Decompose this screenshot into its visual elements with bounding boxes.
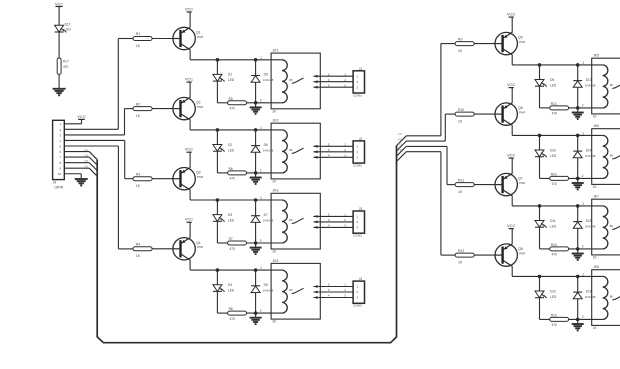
svg-text:R11: R11	[458, 178, 464, 182]
svg-text:1: 1	[260, 266, 262, 270]
svg-text:D9: D9	[550, 78, 554, 82]
svg-text:VCC: VCC	[185, 217, 194, 222]
svg-text:R14: R14	[551, 173, 557, 177]
svg-text:IN7: IN7	[398, 144, 402, 147]
svg-text:D2: D2	[228, 143, 232, 147]
svg-text:8K: 8K	[610, 224, 614, 228]
svg-text:J3: J3	[359, 207, 363, 211]
svg-text:D10: D10	[550, 148, 556, 152]
svg-text:LED: LED	[550, 83, 557, 87]
svg-text:470: 470	[230, 317, 236, 321]
svg-text:R9: R9	[458, 37, 462, 41]
svg-text:VCC: VCC	[55, 1, 64, 6]
svg-text:1: 1	[582, 61, 584, 65]
svg-text:JK6: JK6	[593, 124, 599, 128]
svg-text:470: 470	[230, 247, 236, 251]
svg-text:R4: R4	[136, 243, 140, 247]
svg-text:8K: 8K	[289, 218, 293, 222]
svg-text:470: 470	[552, 112, 558, 116]
svg-text:JK5: JK5	[593, 54, 599, 58]
svg-text:CON3: CON3	[353, 164, 362, 168]
svg-text:JK8: JK8	[593, 265, 599, 269]
svg-text:JK4: JK4	[273, 259, 279, 263]
svg-text:R12: R12	[458, 249, 464, 253]
svg-text:JK1: JK1	[273, 49, 279, 53]
svg-text:PNP: PNP	[519, 110, 525, 114]
svg-text:1K: 1K	[458, 120, 463, 124]
svg-text:PNP: PNP	[197, 105, 203, 109]
svg-text:2: 2	[582, 245, 584, 249]
svg-text:LED: LED	[65, 28, 72, 32]
svg-text:R3: R3	[136, 172, 140, 176]
svg-text:470: 470	[552, 323, 558, 327]
svg-text:J4: J4	[359, 277, 363, 281]
svg-text:R8: R8	[229, 307, 233, 311]
svg-text:R1: R1	[136, 32, 140, 36]
svg-text:1K: 1K	[136, 254, 141, 258]
svg-text:J9: J9	[53, 181, 57, 185]
svg-text:D5: D5	[264, 73, 268, 77]
svg-text:D4: D4	[228, 283, 232, 287]
svg-text:VCC: VCC	[185, 6, 194, 11]
svg-text:R6: R6	[229, 167, 233, 171]
svg-text:D13: D13	[586, 78, 592, 82]
svg-text:VCC: VCC	[507, 82, 516, 87]
svg-text:D16: D16	[586, 289, 592, 293]
svg-text:10PIN: 10PIN	[54, 186, 64, 190]
svg-text:8K: 8K	[289, 148, 293, 152]
svg-text:CON3: CON3	[353, 304, 362, 308]
svg-text:PNP: PNP	[197, 35, 203, 39]
svg-text:PNP: PNP	[519, 40, 525, 44]
svg-text:J2: J2	[359, 137, 363, 141]
svg-text:JK7: JK7	[593, 195, 599, 199]
svg-text:1K: 1K	[458, 49, 463, 53]
svg-text:470: 470	[230, 107, 236, 111]
svg-text:1K: 1K	[136, 44, 141, 48]
svg-text:JK3: JK3	[273, 189, 279, 193]
svg-text:1N4148: 1N4148	[263, 78, 274, 82]
svg-text:470: 470	[230, 177, 236, 181]
svg-text:VCC: VCC	[507, 153, 516, 158]
svg-text:1: 1	[260, 196, 262, 200]
svg-text:VCC: VCC	[507, 223, 516, 228]
svg-text:2: 2	[582, 174, 584, 178]
svg-text:D11: D11	[550, 219, 556, 223]
svg-text:R5: R5	[229, 97, 233, 101]
svg-text:1K: 1K	[458, 261, 463, 265]
svg-text:2: 2	[260, 239, 262, 243]
svg-text:JK2: JK2	[273, 119, 279, 123]
svg-text:PNP: PNP	[197, 245, 203, 249]
svg-text:PNP: PNP	[519, 181, 525, 185]
svg-text:1N4148: 1N4148	[263, 218, 274, 222]
svg-text:LED: LED	[228, 148, 235, 152]
svg-text:LED: LED	[550, 224, 557, 228]
svg-text:1N4148: 1N4148	[585, 224, 596, 228]
svg-text:LED: LED	[228, 289, 235, 293]
svg-text:8K: 8K	[289, 78, 293, 82]
svg-text:IN8: IN8	[398, 149, 402, 152]
svg-text:470: 470	[63, 65, 69, 69]
svg-text:IN5: IN5	[398, 133, 402, 136]
svg-text:R16: R16	[551, 314, 557, 318]
svg-text:1N4148: 1N4148	[263, 148, 274, 152]
svg-text:LED: LED	[228, 218, 235, 222]
svg-text:J1: J1	[359, 67, 363, 71]
svg-text:IN1: IN1	[85, 149, 89, 152]
svg-text:1: 1	[582, 131, 584, 135]
svg-text:1: 1	[260, 56, 262, 60]
svg-text:VCC: VCC	[77, 114, 86, 119]
svg-text:470: 470	[552, 182, 558, 186]
svg-text:D1: D1	[228, 73, 232, 77]
svg-text:IN2: IN2	[85, 154, 89, 157]
svg-text:470: 470	[552, 253, 558, 257]
svg-text:PNP: PNP	[519, 251, 525, 255]
svg-text:IN6: IN6	[398, 138, 402, 141]
svg-text:R13: R13	[551, 102, 557, 106]
svg-text:D8: D8	[264, 283, 268, 287]
svg-text:1K: 1K	[458, 190, 463, 194]
svg-text:1: 1	[260, 126, 262, 130]
svg-text:LED: LED	[228, 78, 235, 82]
svg-text:1K: 1K	[136, 114, 141, 118]
svg-text:D14: D14	[586, 148, 592, 152]
svg-text:8K: 8K	[289, 288, 293, 292]
svg-text:D3: D3	[228, 213, 232, 217]
svg-text:2: 2	[260, 309, 262, 313]
svg-text:10: 10	[58, 172, 62, 176]
svg-text:PNP: PNP	[197, 175, 203, 179]
svg-text:D17: D17	[65, 22, 71, 26]
svg-text:1N4148: 1N4148	[585, 83, 596, 87]
svg-text:R15: R15	[551, 243, 557, 247]
svg-text:R10: R10	[458, 108, 464, 112]
svg-text:D7: D7	[264, 213, 268, 217]
svg-text:1K: 1K	[136, 184, 141, 188]
svg-text:D6: D6	[264, 143, 268, 147]
svg-text:D15: D15	[586, 219, 592, 223]
svg-text:LED: LED	[550, 295, 557, 299]
svg-text:IN4: IN4	[85, 165, 89, 168]
svg-text:8K: 8K	[610, 83, 614, 87]
svg-text:1N4148: 1N4148	[585, 154, 596, 158]
svg-text:VCC: VCC	[185, 77, 194, 82]
svg-text:1: 1	[582, 202, 584, 206]
svg-text:LED: LED	[550, 154, 557, 158]
svg-text:8K: 8K	[610, 294, 614, 298]
svg-text:R17: R17	[63, 60, 69, 64]
svg-text:2: 2	[260, 169, 262, 173]
svg-text:CON3: CON3	[353, 234, 362, 238]
svg-text:CON3: CON3	[353, 93, 362, 97]
svg-text:VCC: VCC	[185, 147, 194, 152]
svg-text:R2: R2	[136, 102, 140, 106]
svg-text:2: 2	[582, 315, 584, 319]
svg-text:D12: D12	[550, 289, 556, 293]
svg-text:1: 1	[582, 272, 584, 276]
svg-text:VCC: VCC	[507, 12, 516, 17]
svg-text:IN3: IN3	[85, 160, 89, 163]
svg-text:2: 2	[260, 99, 262, 103]
svg-text:1N4148: 1N4148	[585, 295, 596, 299]
svg-text:8K: 8K	[610, 153, 614, 157]
svg-text:2: 2	[582, 104, 584, 108]
svg-text:R7: R7	[229, 237, 233, 241]
svg-text:1N4148: 1N4148	[263, 289, 274, 293]
